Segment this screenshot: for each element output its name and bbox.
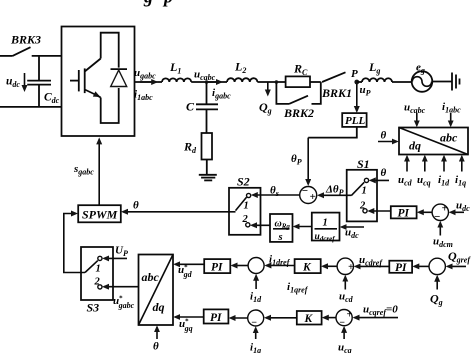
wire ucq summer to K2 [324, 317, 336, 319]
svg-text:C: C [186, 100, 195, 114]
svg-text:abc: abc [142, 270, 160, 284]
svg-text:2: 2 [94, 277, 101, 288]
svg-text:ucq: ucq [417, 174, 431, 188]
svg-text:−: − [339, 318, 345, 329]
output i1d arrow [438, 157, 450, 188]
switch S1 [347, 157, 377, 221]
svg-text:+: + [442, 203, 448, 215]
svg-text:sgabc: sgabc [73, 163, 94, 177]
wire Qsummer to PI2 [414, 265, 429, 267]
caption fragment [143, 0, 173, 7]
svg-text:θ: θ [381, 130, 387, 142]
svg-text:ucabc: ucabc [194, 69, 216, 83]
svg-text:i1q: i1q [455, 174, 466, 188]
wire gain to integrator [295, 226, 312, 228]
svg-text:igabc: igabc [212, 87, 231, 101]
wire summer to PI1 [419, 211, 432, 213]
controller PI2 [389, 261, 412, 274]
svg-text:dq: dq [153, 300, 165, 314]
ground [199, 160, 217, 181]
svg-text:i1dref: i1dref [269, 254, 291, 268]
svg-text:abc: abc [440, 131, 458, 145]
wire PI2 to ucd summer [356, 254, 390, 268]
svg-text:PI: PI [211, 262, 223, 274]
svg-text:+: + [347, 310, 353, 321]
voltage udc arrow [6, 73, 25, 90]
inductor Lg [357, 60, 412, 82]
svg-text:udc: udc [345, 227, 359, 241]
svg-text:g: g [143, 0, 153, 7]
svg-text:S2: S2 [237, 175, 250, 189]
svg-text:θP: θP [291, 153, 302, 167]
svg-text:SPWM: SPWM [82, 207, 118, 221]
input i1abc arrow [442, 101, 461, 125]
switch BRK2 [275, 80, 321, 120]
input UP to S3 [104, 245, 128, 259]
transform block abc-dq measure [399, 128, 468, 155]
svg-text:s: s [278, 232, 283, 243]
wire i1d summer to PI3 [233, 265, 249, 267]
input Qgref [448, 249, 472, 266]
svg-text:L2: L2 [234, 60, 246, 76]
wire PI3 to transform [175, 264, 204, 280]
svg-text:i1q: i1q [250, 342, 261, 353]
gain K1 [295, 259, 321, 273]
svg-text:udc: udc [456, 200, 470, 214]
svg-text:i1qref: i1qref [287, 281, 309, 295]
current igabc arrow [208, 82, 231, 101]
svg-text:RC: RC [293, 62, 308, 78]
svg-text:S3: S3 [87, 301, 100, 315]
svg-text:1: 1 [362, 186, 367, 197]
switch BRK3 [10, 33, 41, 56]
summer udc [432, 203, 448, 224]
inductor L1 [162, 60, 191, 82]
svg-text:L1: L1 [169, 60, 181, 76]
wire i1q summer to PI4 [231, 317, 248, 319]
svg-text:i1d: i1d [250, 291, 262, 305]
svg-text:ugabc: ugabc [134, 67, 156, 81]
svg-text:ucabc: ucabc [404, 102, 426, 116]
inductor L2 [227, 60, 257, 83]
wire dc bottom [0, 106, 62, 108]
input udc to summer [451, 200, 470, 214]
svg-text:ucd: ucd [339, 291, 354, 305]
svg-text:PI: PI [395, 262, 407, 274]
svg-text:ucq: ucq [338, 342, 352, 353]
switch BRK1 [321, 72, 352, 100]
input theta to S1 [371, 167, 389, 180]
gain 1/udcref block [312, 213, 340, 243]
resistor Rd [183, 133, 212, 160]
summer i1d [248, 258, 264, 274]
input ucabc arrow [404, 102, 426, 126]
input udc to gain [342, 227, 364, 241]
svg-text:ucdref: ucdref [359, 254, 383, 268]
ground grid [452, 73, 460, 91]
svg-text:θs: θs [270, 185, 279, 199]
wire PI4 to transform [175, 317, 204, 333]
input i1d arrow [250, 276, 262, 304]
PLL block [342, 113, 366, 127]
svg-text:Lg: Lg [368, 60, 380, 76]
svg-text:BRK2: BRK2 [283, 106, 314, 120]
output ucq arrow [417, 157, 431, 188]
svg-text:+: + [310, 191, 316, 203]
svg-text:u*gq: u*gq [179, 318, 193, 334]
svg-text:−: − [251, 318, 257, 329]
wire to grid ground [432, 81, 452, 83]
svg-text:1: 1 [96, 264, 101, 275]
theta input to ref transform [153, 327, 159, 352]
controller PI1 [391, 206, 417, 219]
theta input to transform [378, 130, 397, 142]
svg-text:θ: θ [133, 200, 139, 212]
transform block dq-abc ref [139, 255, 174, 326]
wire inverter output [134, 67, 162, 102]
svg-text:2: 2 [359, 201, 366, 212]
svg-text:p: p [162, 0, 173, 7]
svg-text:BRK1: BRK1 [321, 86, 352, 100]
resistor RC [286, 62, 321, 88]
svg-text:ΔθP: ΔθP [325, 184, 344, 198]
input i1q arrow [250, 328, 261, 353]
transistor Q1 (IGBT) [70, 59, 101, 98]
svg-text:−: − [302, 185, 309, 197]
svg-text:PI: PI [210, 312, 222, 324]
node ucabc [191, 69, 227, 84]
input udcm arrow [433, 223, 453, 249]
wire PLL to summer [291, 127, 357, 184]
svg-text:1: 1 [244, 201, 249, 212]
SPWM block [78, 205, 121, 222]
svg-text:PLL: PLL [345, 115, 365, 127]
svg-text:Rd: Rd [183, 140, 197, 156]
svg-text:ucqref=0: ucqref=0 [363, 304, 398, 318]
wire S3 out to SPWM [64, 214, 85, 273]
output ucd arrow [398, 157, 413, 188]
gate signal sgabc arrow [73, 139, 99, 205]
switch S3 [81, 247, 113, 315]
controller PI3 [204, 259, 230, 273]
svg-text:K: K [302, 262, 312, 274]
diode D1 [111, 69, 128, 86]
svg-text:1: 1 [323, 218, 328, 229]
svg-text:i1d: i1d [438, 174, 450, 188]
svg-text:u*gabc: u*gabc [113, 295, 135, 311]
wire S1 out to summer [319, 184, 351, 198]
switch S2 [229, 175, 261, 235]
inverter inner loop wire [101, 33, 119, 123]
svg-text:eg: eg [416, 62, 425, 76]
svg-text:uP: uP [360, 84, 371, 98]
inverter box [62, 27, 135, 137]
svg-text:−: − [434, 211, 441, 223]
svg-text:S1: S1 [357, 157, 370, 171]
svg-text:ucd: ucd [398, 174, 413, 188]
svg-text:i1abc: i1abc [442, 101, 461, 115]
integrator wRg/s block [270, 214, 293, 243]
wire K1 to i1d summer [266, 254, 308, 295]
wire PI1 to S1 [369, 210, 391, 212]
summer ucq [336, 310, 353, 329]
svg-text:Cdc: Cdc [44, 92, 60, 106]
gain K2 [297, 311, 322, 325]
input ucq arrow [338, 328, 352, 353]
svg-text:2: 2 [242, 214, 249, 225]
svg-text:Qgref: Qgref [448, 249, 471, 265]
svg-text:udcm: udcm [433, 236, 453, 250]
svg-text:PI: PI [398, 208, 410, 220]
svg-text:θ: θ [381, 167, 387, 179]
input ucd arrow [339, 277, 354, 304]
svg-text:i1abc: i1abc [134, 89, 153, 103]
svg-text:P: P [351, 68, 358, 80]
input Qg arrow [430, 277, 443, 307]
capacitor C filter [186, 82, 218, 133]
summer ucd [337, 258, 354, 274]
voltage uP arrow [357, 84, 371, 111]
svg-text:u*gd: u*gd [178, 264, 193, 280]
input ucqref [355, 304, 399, 318]
wire S2 out to SPWM [123, 200, 236, 212]
svg-text:Qg: Qg [259, 100, 272, 116]
wire integrator to S2 [252, 224, 270, 226]
summer i1q [248, 310, 264, 329]
output i1q arrow [455, 157, 466, 188]
svg-text:BRK3: BRK3 [10, 33, 41, 47]
svg-text:θ: θ [153, 341, 159, 353]
svg-text:UP: UP [115, 245, 128, 259]
capacitor Cdc [27, 56, 59, 107]
wire thetas to S2 [253, 185, 300, 199]
wire dc top [0, 55, 62, 57]
controller PI4 [204, 309, 229, 324]
svg-text:+: + [348, 262, 354, 273]
wire to RC [257, 81, 285, 83]
summer theta [300, 185, 317, 204]
svg-text:udc: udc [6, 76, 20, 90]
node P [351, 68, 359, 84]
summer Qg [429, 258, 445, 274]
reactive power Qg arrow [259, 82, 272, 116]
source eg [412, 62, 433, 92]
wire ucd summer to K1 [323, 265, 337, 267]
svg-text:dq: dq [409, 139, 421, 153]
svg-text:Qg: Qg [430, 292, 443, 308]
wire ugabc ref to S3 [104, 287, 139, 310]
svg-text:K: K [304, 313, 314, 325]
wire K2 to i1q summer [266, 317, 297, 319]
